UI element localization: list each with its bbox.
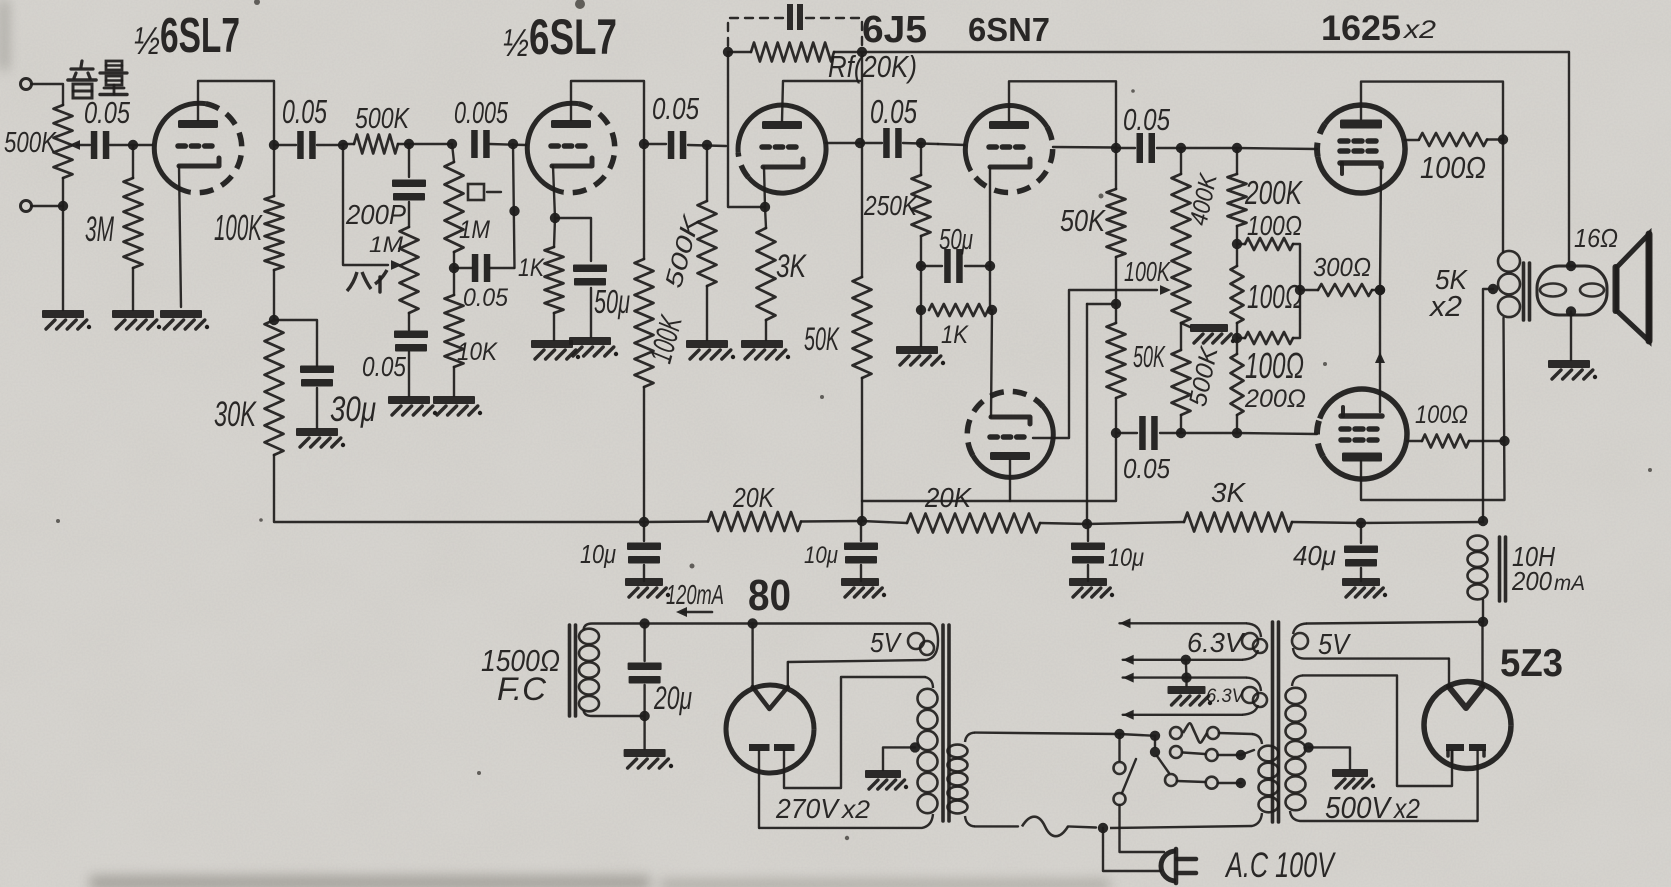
- svg-text:0.05: 0.05: [463, 284, 508, 312]
- svg-text:3M: 3M: [85, 210, 115, 249]
- svg-text:10μ: 10μ: [804, 542, 838, 569]
- svg-text:100K: 100K: [1124, 256, 1171, 287]
- svg-text:50K: 50K: [1060, 203, 1106, 238]
- svg-text:30μ: 30μ: [330, 390, 376, 429]
- svg-text:10μ: 10μ: [580, 539, 616, 569]
- svg-text:50μ: 50μ: [939, 224, 973, 256]
- svg-text:0.05: 0.05: [362, 351, 406, 382]
- svg-text:½: ½: [134, 20, 160, 63]
- svg-text:80: 80: [748, 571, 791, 620]
- svg-text:1625: 1625: [1321, 9, 1401, 48]
- svg-text:6SL7: 6SL7: [529, 9, 617, 65]
- svg-text:50K: 50K: [804, 321, 840, 357]
- svg-text:16Ω: 16Ω: [1574, 223, 1618, 253]
- svg-text:F.C: F.C: [497, 671, 547, 707]
- svg-text:6.3V: 6.3V: [1187, 627, 1245, 658]
- svg-text:200: 200: [1511, 566, 1552, 596]
- svg-text:3K: 3K: [1211, 477, 1246, 508]
- svg-text:20K: 20K: [732, 482, 775, 513]
- svg-text:1K: 1K: [518, 254, 545, 282]
- svg-text:5Z3: 5Z3: [1500, 642, 1563, 685]
- svg-text:500V: 500V: [1325, 790, 1393, 825]
- svg-text:Rf(20K): Rf(20K): [828, 49, 917, 84]
- svg-text:10μ: 10μ: [1108, 544, 1144, 572]
- svg-text:250K: 250K: [863, 190, 918, 221]
- svg-text:20K: 20K: [924, 482, 972, 513]
- svg-text:100Ω: 100Ω: [1247, 278, 1302, 315]
- svg-text:120mA: 120mA: [666, 579, 724, 610]
- svg-text:270V: 270V: [775, 793, 840, 824]
- svg-text:5V: 5V: [1318, 629, 1351, 661]
- svg-text:0.05: 0.05: [652, 91, 700, 126]
- svg-text:6.3V: 6.3V: [1206, 686, 1246, 707]
- svg-text:20μ: 20μ: [653, 680, 692, 716]
- svg-text:10K: 10K: [457, 338, 498, 366]
- svg-text:100K: 100K: [214, 207, 263, 248]
- svg-text:x2: x2: [1392, 793, 1420, 824]
- svg-text:0.005: 0.005: [454, 95, 509, 130]
- svg-text:500K: 500K: [4, 127, 57, 159]
- svg-text:x2: x2: [1403, 16, 1436, 44]
- svg-text:6SL7: 6SL7: [160, 9, 240, 63]
- svg-text:100Ω: 100Ω: [1415, 401, 1468, 429]
- svg-text:30K: 30K: [214, 395, 257, 434]
- svg-text:300Ω: 300Ω: [1313, 252, 1371, 282]
- svg-text:x2: x2: [841, 796, 870, 824]
- svg-text:5V: 5V: [870, 627, 902, 658]
- svg-text:mA: mA: [1554, 572, 1585, 595]
- svg-text:1M: 1M: [459, 216, 490, 244]
- svg-text:1K: 1K: [941, 321, 969, 349]
- svg-text:A.C 100V: A.C 100V: [1225, 846, 1337, 885]
- svg-text:500K: 500K: [355, 103, 410, 135]
- svg-text:6J5: 6J5: [862, 9, 927, 51]
- svg-text:40μ: 40μ: [1293, 540, 1336, 571]
- svg-text:x2: x2: [1428, 291, 1462, 323]
- svg-text:0.05: 0.05: [84, 95, 131, 130]
- svg-text:3K: 3K: [776, 248, 807, 284]
- svg-text:200Ω: 200Ω: [1244, 385, 1306, 413]
- svg-text:100Ω: 100Ω: [1420, 150, 1486, 185]
- svg-text:0.05: 0.05: [1123, 102, 1171, 137]
- svg-text:0.05: 0.05: [1123, 453, 1170, 484]
- svg-text:0.05: 0.05: [282, 93, 327, 130]
- svg-text:1M: 1M: [369, 232, 404, 257]
- svg-text:200K: 200K: [1244, 174, 1303, 211]
- svg-text:200P: 200P: [345, 199, 406, 230]
- svg-text:100Ω: 100Ω: [1245, 345, 1304, 386]
- svg-text:50K: 50K: [1133, 339, 1166, 374]
- svg-text:50μ: 50μ: [594, 283, 630, 320]
- svg-text:6SN7: 6SN7: [968, 11, 1050, 48]
- svg-text:100Ω: 100Ω: [1247, 210, 1302, 241]
- svg-text:0.05: 0.05: [870, 93, 917, 130]
- svg-text:½: ½: [503, 22, 529, 65]
